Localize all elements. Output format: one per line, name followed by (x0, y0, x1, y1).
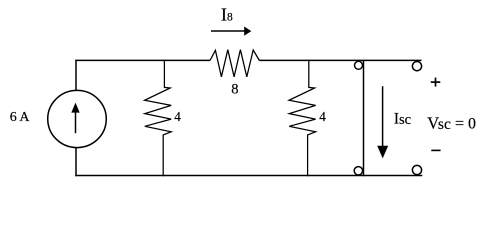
wire source bottom lead (75, 148, 77, 176)
current arrow I8 head (244, 27, 251, 36)
label - polarity (431, 149, 440, 151)
svg-text:4: 4 (319, 109, 326, 124)
current arrow I8 shaft (211, 30, 246, 32)
wire top rail left (75, 59, 210, 61)
svg-text:6 A: 6 A (10, 110, 31, 125)
current source arrow shaft (75, 112, 77, 134)
wire top rail right (259, 59, 421, 61)
svg-text:4: 4 (174, 109, 181, 124)
svg-text:I8: I8 (221, 5, 233, 25)
node terminal circle top inner (355, 61, 363, 69)
svg-text:Isc: Isc (394, 110, 411, 128)
resistor R1 4-ohm (left) zigzag (145, 60, 172, 176)
node terminal circle bottom inner (354, 167, 362, 175)
wire bottom rail (75, 175, 422, 177)
current source I1 circle (48, 90, 107, 147)
resistor R2 4-ohm (right) zigzag (289, 60, 316, 176)
svg-text:8: 8 (231, 82, 238, 98)
label + polarity (431, 81, 441, 83)
svg-text:Vsc = 0: Vsc = 0 (427, 113, 476, 133)
current arrow Isc shaft (382, 86, 384, 147)
wire short-circuit vertical (363, 60, 365, 176)
wire source top lead (75, 60, 77, 91)
resistor R3 8-ohm (horizontal) zigzag (210, 50, 259, 77)
current arrow Isc head (377, 146, 388, 159)
node terminal circle top right (412, 62, 421, 71)
current source arrow head (71, 103, 79, 113)
node terminal circle bottom right (412, 165, 421, 174)
